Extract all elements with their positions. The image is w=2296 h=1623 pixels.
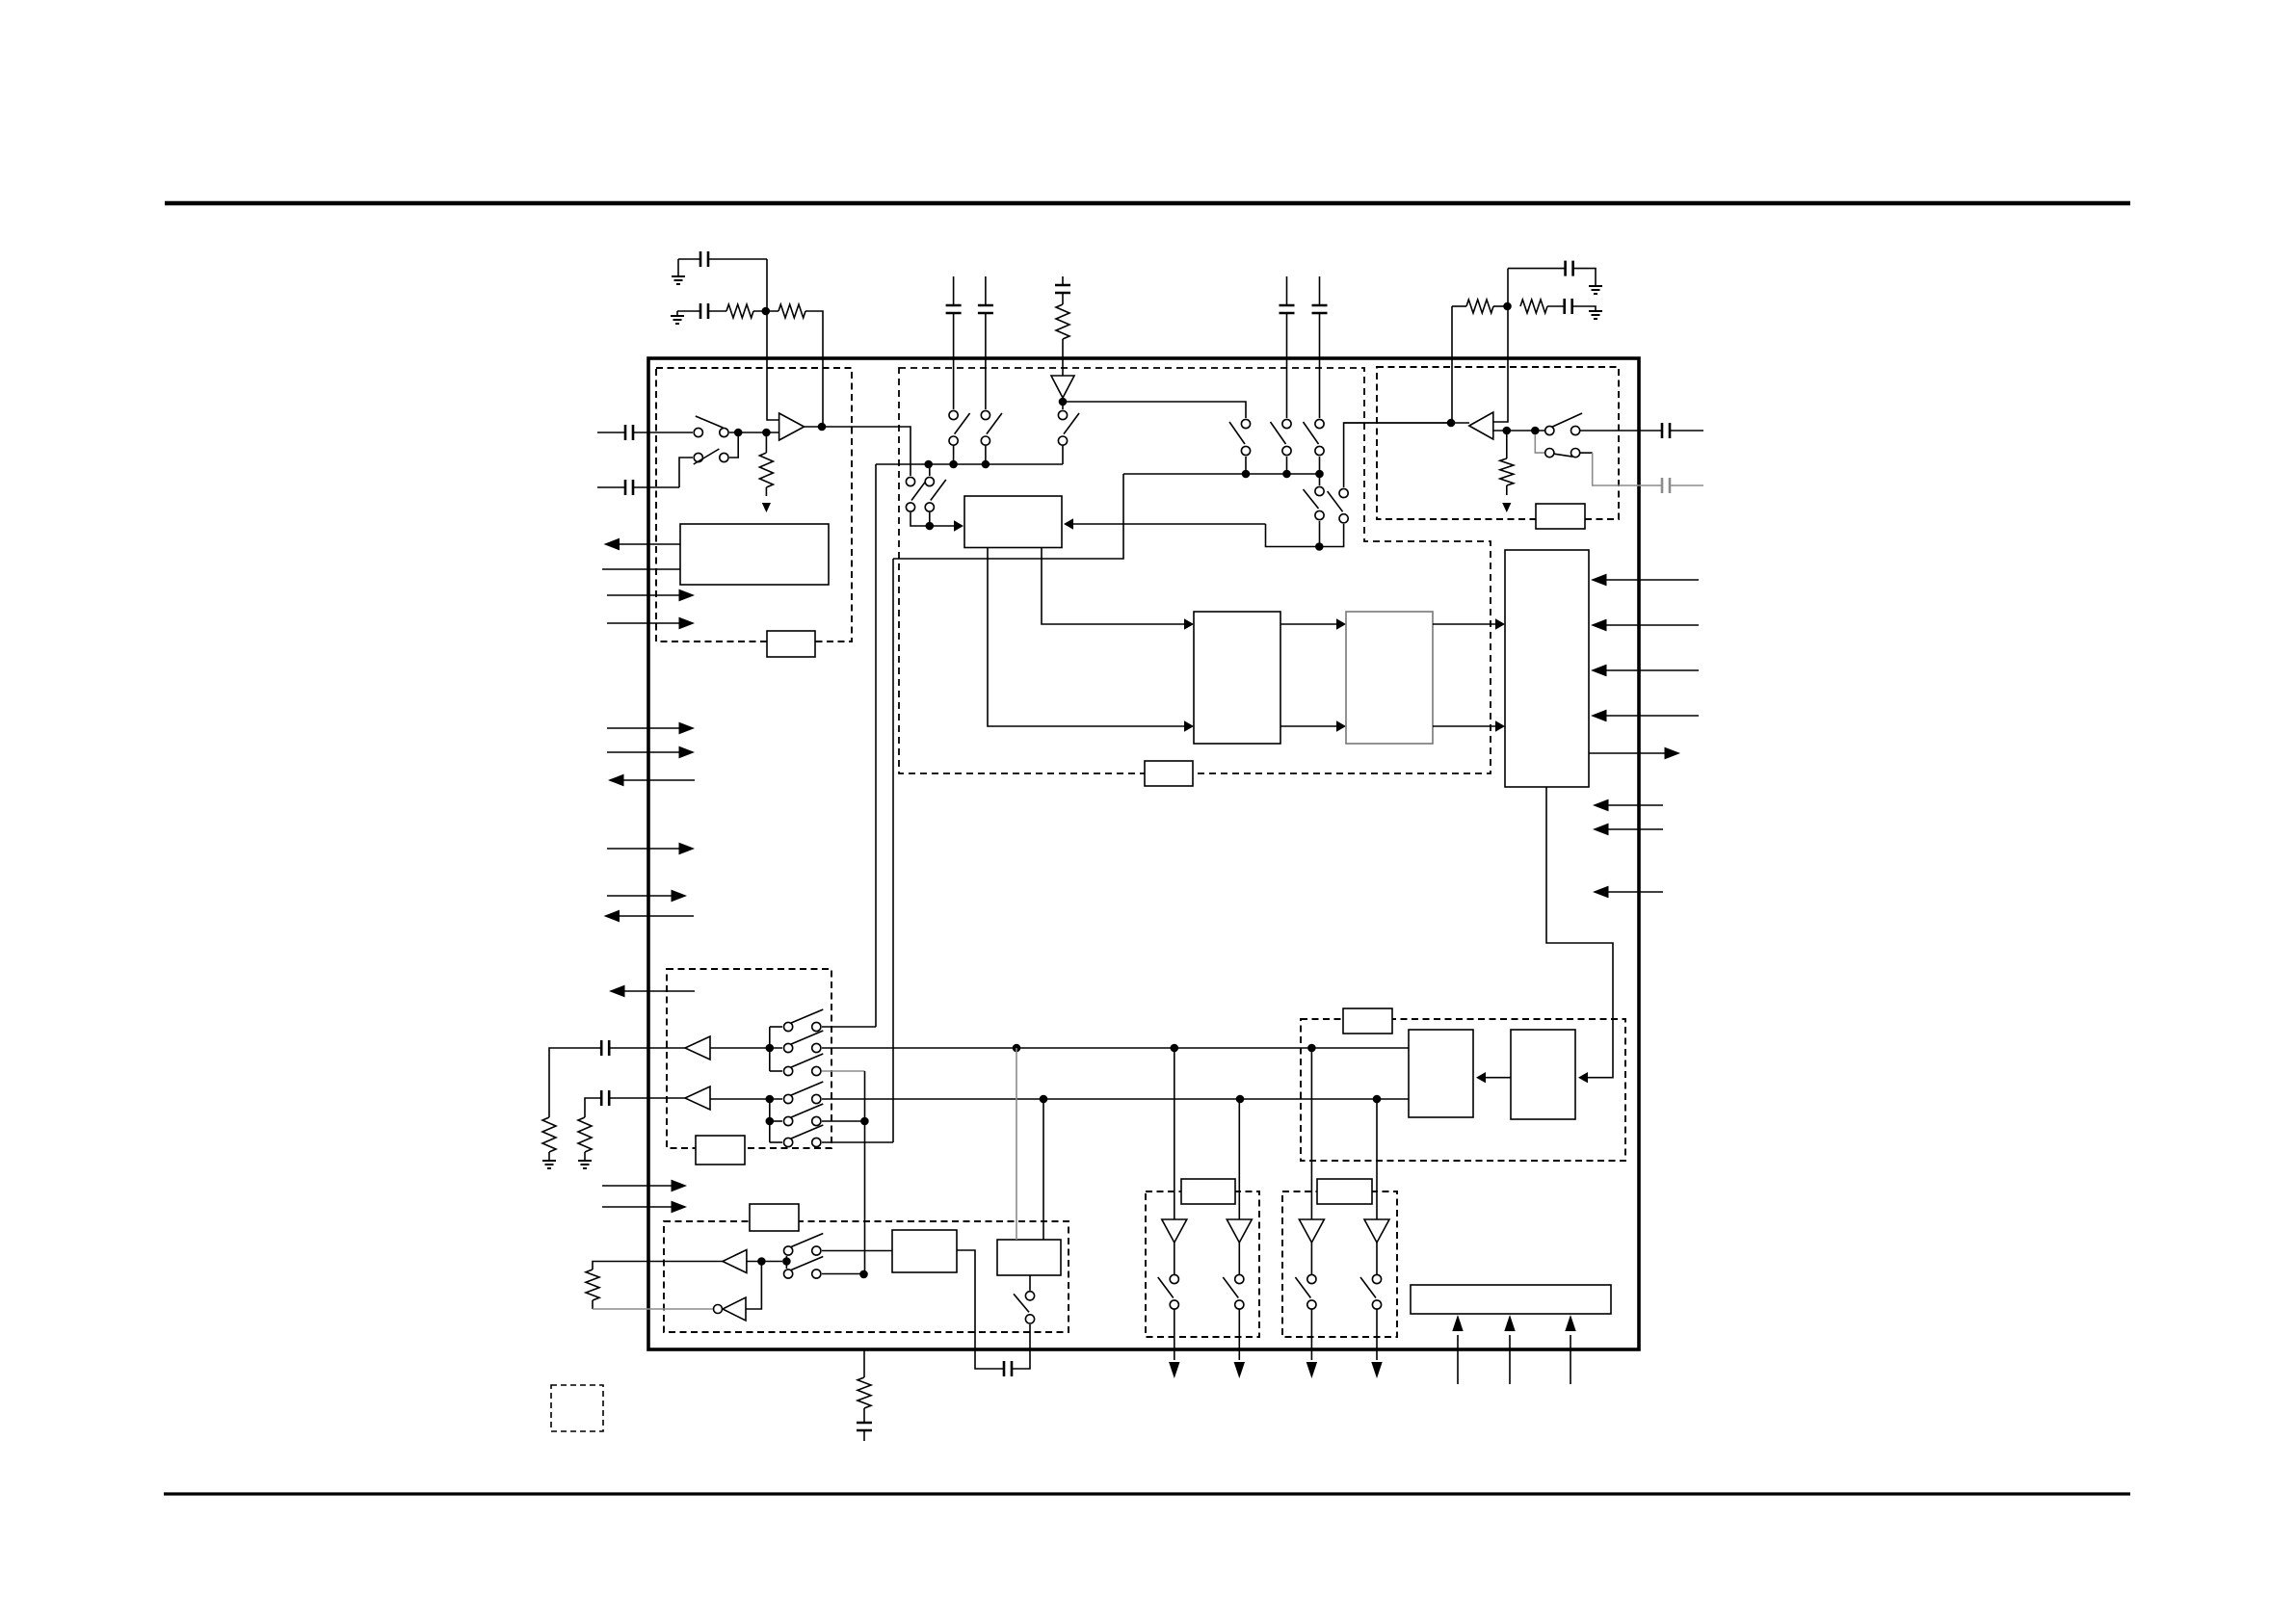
wire from switches to selector <box>1266 524 1344 547</box>
capacitor C11 (left input 2) <box>597 486 625 488</box>
box: reference <box>997 1240 1061 1275</box>
label box right block <box>1536 504 1585 529</box>
wire input node <box>729 432 779 433</box>
buffer U4 (line out L) <box>685 1036 710 1060</box>
pin arrow out y810 <box>616 779 695 781</box>
wire feedback right vertical to buffer input <box>1493 269 1508 422</box>
wire U3 input line <box>1493 430 1545 432</box>
capacitor C2 <box>700 303 708 319</box>
pin arrow in y647 <box>607 622 688 624</box>
wire x897 vertical <box>864 1071 866 1274</box>
capacitor C6 (top) <box>1286 276 1288 305</box>
pin arrow in y618 <box>607 594 688 596</box>
capacitor C5 over resistor R3 (mid top) <box>1062 276 1064 285</box>
wire SW22 to x897 <box>822 1273 864 1275</box>
node bus2 d3 <box>1315 470 1324 479</box>
page footer rule <box>164 1492 2130 1495</box>
wire SW4 from bus <box>929 464 931 476</box>
ground G3 <box>1589 286 1602 294</box>
wire filter to DSP y756 <box>1433 725 1497 727</box>
wire gray to external cap2 <box>1580 452 1593 454</box>
node N9 <box>860 1117 869 1126</box>
switch SW12 (line monitor) <box>1339 488 1348 497</box>
node N2 <box>762 429 771 437</box>
node N8 <box>766 1044 775 1053</box>
wire to reference box <box>1029 1275 1031 1291</box>
node bus2 d1 <box>1242 470 1251 479</box>
pin arrow in y836 <box>1600 804 1663 806</box>
capacitor C4 (top) <box>985 276 987 305</box>
buffer U3 (right input) <box>1469 412 1493 439</box>
buffer U6 (VREF) <box>723 1250 747 1273</box>
switch SW5 under C3 <box>949 410 958 419</box>
switch under driver x1218 <box>1170 1274 1178 1283</box>
dashed block: middle record path section <box>899 368 1491 773</box>
label box driver pair 2 <box>1317 1179 1372 1204</box>
wire stub switches <box>785 1256 787 1269</box>
switch SW7 <box>1058 410 1067 419</box>
node N11 <box>766 1095 775 1104</box>
switch SW17 (row3 gray) <box>784 1066 793 1075</box>
wire feedback to op-amp output <box>805 311 823 427</box>
node FB-R junction <box>1503 302 1512 311</box>
wire monitor vertical x927 <box>892 559 894 1142</box>
page header rule <box>165 201 2130 206</box>
node N4 <box>1059 398 1068 406</box>
switch SW9 under C6 <box>1282 419 1291 428</box>
node bus1b d3 <box>1307 1044 1316 1053</box>
node bus1 d3 <box>982 460 990 469</box>
wire DAC right to left arrow <box>1484 1077 1511 1079</box>
label box driver pair 1 <box>1181 1179 1235 1204</box>
switch SW20 (row6) <box>784 1138 793 1146</box>
node N1 <box>734 429 743 437</box>
pin arrow down x1286 <box>1238 1310 1240 1361</box>
switch SW15 (row1) <box>784 1022 793 1031</box>
wire selector right input <box>1071 523 1266 525</box>
resistor R6 to analog ground <box>765 436 767 453</box>
wire driver tap x1429 <box>1376 1099 1378 1219</box>
capacitor C15 <box>601 1090 609 1106</box>
wire filter to DSP y648 <box>1433 623 1497 625</box>
pin arrow in y861 <box>1600 828 1663 830</box>
pin arrow in y743 <box>1598 715 1699 717</box>
dashed block: right input buffer section <box>1377 367 1619 519</box>
switch SW13 <box>1545 426 1554 434</box>
wire bus1 bottom (to DAC input) <box>822 1047 1409 1049</box>
node U3 out <box>1447 419 1456 428</box>
resistor R9 <box>578 1117 592 1152</box>
pin arrow in y696 <box>1598 669 1699 671</box>
wire U4 input <box>710 1047 782 1049</box>
switch SW23 <box>1025 1292 1034 1300</box>
wire feedback to buffer output node <box>1451 306 1453 423</box>
wire long vertical x909 (monitor loop) <box>875 464 877 1027</box>
switch SW1 <box>694 428 702 436</box>
wire serial block to DAC <box>1546 787 1613 1069</box>
capacitor C13 (right input 2, gray) <box>1662 478 1670 493</box>
wire SW3/SW4 join to selector box <box>910 512 930 526</box>
ground G2 <box>676 311 678 315</box>
wire inverter input from N13 <box>746 1262 761 1310</box>
ground top-left G1 <box>677 259 679 276</box>
pin arrow down x1429 <box>1376 1310 1378 1361</box>
wire feedback left vertical to op-amp inverting input <box>767 259 779 420</box>
driver amp at x1429 (triangle down) <box>1364 1219 1389 1243</box>
wire driver tap x1361 <box>1310 1048 1312 1219</box>
switch SW4 <box>925 477 934 485</box>
wire row6 to x927 <box>822 1141 893 1143</box>
wire U6 output to pin <box>593 1262 723 1270</box>
external capacitor C17 <box>857 1423 872 1430</box>
box: ADC <box>1194 612 1280 744</box>
switch SW14 (gray) <box>1545 449 1554 458</box>
op-amp U1 (mic amp) <box>779 413 805 440</box>
dashed block: DAC section <box>1301 1019 1625 1161</box>
node N14 <box>782 1257 791 1266</box>
buffer U2 (inverting, mic bias) pointing down <box>1051 376 1074 398</box>
pin arrow in y649 <box>1598 624 1699 626</box>
box: left interface block <box>680 524 829 585</box>
node bus1b d2 <box>1171 1044 1179 1053</box>
wire U6 input line <box>747 1261 782 1263</box>
pin arrow in y756 <box>607 727 688 729</box>
IC boundary <box>648 358 1639 1349</box>
switch SW10 under C7 <box>1315 419 1324 428</box>
wire U4 out to pin <box>609 1047 685 1049</box>
wire to resistor R9 <box>585 1098 601 1117</box>
capacitor C16 (external) <box>1004 1361 1012 1376</box>
pin arrow out y951 <box>611 915 694 917</box>
driver amp at x1361 (triangle down) <box>1299 1219 1324 1243</box>
driver amp at x1218 (triangle down) <box>1162 1219 1187 1243</box>
resistor R7 to analog ground <box>1506 434 1508 458</box>
node bus2b d3 <box>1373 1095 1382 1104</box>
node N10 <box>859 1270 868 1279</box>
pin arrow up x1630 <box>1570 1335 1571 1384</box>
label box reference block <box>750 1204 799 1231</box>
driver amp at x1286 (triangle down) <box>1227 1219 1252 1243</box>
ground G4 <box>1589 311 1602 319</box>
box: DAC left <box>1409 1030 1473 1117</box>
capacitor C14 <box>601 1040 609 1056</box>
wire row3 gray <box>822 1070 865 1072</box>
capacitor C8 <box>1566 261 1573 276</box>
node bus2 d2 <box>1282 470 1291 479</box>
switch SW18 (row4) <box>784 1094 793 1103</box>
switch SW8 <box>1241 419 1250 428</box>
resistor R10 external <box>586 1270 599 1300</box>
node N7 <box>1531 427 1540 435</box>
pin arrow in y926 <box>1600 891 1663 893</box>
label box record path <box>1145 761 1193 786</box>
node N3 <box>926 522 935 531</box>
node bus2b d1 <box>1040 1095 1048 1104</box>
pin arrow in y930 <box>607 895 680 897</box>
capacitor C3 (top) <box>953 276 955 305</box>
switch under driver x1286 <box>1235 1274 1244 1283</box>
inverter U7 with bubble <box>723 1297 746 1321</box>
buffer U5 (line out R) <box>685 1086 710 1110</box>
wire AGC out via external cap <box>957 1250 1004 1369</box>
switch SW16 (row2) <box>784 1043 793 1052</box>
node N12 <box>766 1117 775 1126</box>
resistor R3 <box>1056 304 1069 339</box>
wire gray tap bus1 to reference box <box>1016 1048 1017 1240</box>
box: power management long box <box>1411 1285 1611 1314</box>
resistor R2 <box>779 304 805 318</box>
wire U5 out to pin <box>609 1097 685 1099</box>
wire ADC to filter y756 <box>1280 725 1338 727</box>
wire switch stub column 1 <box>769 1027 771 1071</box>
ground G5 <box>542 1161 556 1168</box>
node bus1 d2 <box>949 460 958 469</box>
dashed legend box <box>551 1385 603 1431</box>
capacitor C10 (left input 1) <box>597 432 625 433</box>
capacitor C9 <box>1565 299 1572 314</box>
pin line in y591 <box>602 568 680 570</box>
wire row5 to x897 <box>822 1120 864 1122</box>
switch SW19 (row5) <box>784 1116 793 1125</box>
wire bus1 top <box>876 463 1063 465</box>
switch SW11 (DAC monitor) <box>1315 486 1324 495</box>
dashed block: bottom-middle reference section <box>664 1221 1069 1332</box>
box: serial interface <box>1505 550 1589 787</box>
resistor R4 <box>1452 305 1466 307</box>
wire to resistor R8 <box>549 1048 601 1117</box>
pin arrow out y782 <box>1589 752 1673 754</box>
wire SW12 to right buffer output <box>1344 423 1451 487</box>
wire switch stub column 2 <box>769 1099 771 1142</box>
capacitor C12 (right input 1) <box>1662 423 1670 438</box>
node bus2b d2 <box>1236 1095 1245 1104</box>
wire tap bus2 to reference box <box>1042 1099 1044 1240</box>
pin line out y565 <box>611 543 680 545</box>
box: DAC right <box>1511 1030 1575 1119</box>
wire bus2 bottom (to DAC input) <box>822 1098 1409 1100</box>
node bus1 d1 <box>924 460 933 469</box>
node N6 <box>1503 427 1512 435</box>
label box DAC <box>1343 1008 1392 1034</box>
wire U5 input <box>710 1098 782 1100</box>
box: decimation filter <box>1346 612 1433 744</box>
wire row1 to monitor bus <box>822 1026 876 1028</box>
node U1 output <box>818 423 827 432</box>
wire U1 output <box>805 427 910 476</box>
box: AGC <box>892 1230 957 1272</box>
resistor R5 <box>1520 300 1547 313</box>
wire SW2 to node N1 <box>729 436 738 458</box>
dashed block: line driver pair 1 <box>1146 1191 1259 1337</box>
label box left block <box>767 631 815 657</box>
dashed block: lower-left output mux section <box>667 969 831 1148</box>
wire to switch SW2 <box>679 458 693 487</box>
wire selector outputs down <box>1042 547 1186 624</box>
node FB-L junction <box>762 307 771 316</box>
wire bus2 drop to monitor return <box>893 474 1123 559</box>
switch SW21 <box>784 1246 793 1255</box>
wire to external cap <box>1580 430 1662 432</box>
wire N4 to SW8 <box>1063 402 1246 418</box>
switch under driver x1429 <box>1372 1274 1381 1283</box>
pin arrow out y1029 <box>617 990 695 992</box>
wire SW21 to AGC box <box>822 1250 892 1252</box>
wire gray return <box>593 1308 713 1310</box>
resistor R1 <box>726 304 753 318</box>
wire gray loop to SW14 <box>1535 434 1544 453</box>
wire ADC to filter y648 <box>1280 623 1338 625</box>
switch under driver x1361 <box>1307 1274 1316 1283</box>
capacitor C7 (top) <box>1319 276 1321 305</box>
wire U3 output <box>1344 422 1469 424</box>
node N5 <box>1315 542 1324 551</box>
node N13 <box>757 1257 766 1266</box>
pin arrow down x1361 <box>1310 1310 1312 1361</box>
switch SW22 <box>784 1270 793 1278</box>
switch SW6 under C4 <box>981 410 990 419</box>
wire driver tap x1286 <box>1238 1099 1240 1219</box>
label box mux block <box>696 1136 745 1165</box>
external resistor R11 below IC <box>863 1349 865 1377</box>
node bus1b d1 <box>1013 1044 1021 1053</box>
dashed block: line driver pair 2 <box>1282 1191 1397 1337</box>
wire bus2 <box>1123 473 1320 475</box>
capacitor C1 (top-left feedback) <box>678 258 700 260</box>
pin arrow up x1513 <box>1457 1335 1459 1384</box>
pin arrow in y781 <box>607 751 688 753</box>
switch SW2 <box>694 453 702 461</box>
wire top-right feedback top <box>1508 268 1566 270</box>
pin arrow down x1218 <box>1174 1310 1175 1361</box>
switch SW3 <box>906 477 914 485</box>
box: input selector <box>964 496 1062 548</box>
pin arrow in y1253 <box>602 1206 680 1208</box>
pin arrow in y602 <box>1598 579 1699 581</box>
pin arrow in y1231 <box>602 1185 680 1187</box>
ground G6 <box>578 1161 592 1168</box>
pin arrow in y881 <box>607 848 688 850</box>
dashed block: left input amplifier section <box>656 368 852 641</box>
wire driver tap x1218 <box>1174 1048 1175 1219</box>
pin arrow up x1567 <box>1509 1335 1511 1384</box>
resistor R8 <box>542 1117 556 1152</box>
